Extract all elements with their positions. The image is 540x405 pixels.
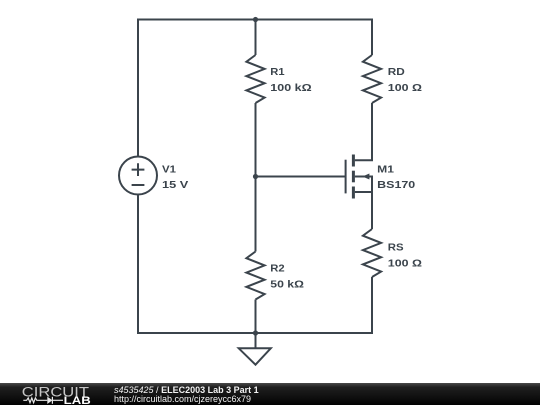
node junction gate [253, 174, 258, 179]
svg-text:V1: V1 [162, 165, 176, 176]
ground symbol [239, 348, 271, 364]
footer bar [0, 383, 540, 405]
wire gate horizontal [256, 176, 346, 178]
label R1 100 kOhm [270, 67, 311, 94]
wire R2 bottom stub [255, 300, 257, 334]
wire RD to drain [355, 103, 372, 160]
node junction top [253, 17, 258, 22]
resistor RD [363, 55, 381, 103]
svg-text:R2: R2 [270, 263, 285, 274]
svg-text:M1: M1 [377, 165, 394, 176]
node junction bottom [253, 330, 258, 335]
svg-text:15 V: 15 V [162, 180, 189, 191]
wire left branch lower + bottom rail + RS bottom stub [138, 195, 372, 334]
wire R1 top stub [255, 20, 257, 56]
resistor R2 [246, 252, 264, 300]
svg-text:100 Ω: 100 Ω [388, 83, 422, 94]
voltage source V1 [119, 157, 157, 195]
wire top rail + left branch upper [138, 20, 372, 157]
transistor M1 [346, 155, 372, 230]
label M1 BS170 [377, 165, 416, 192]
label RS 100 Ohm [388, 242, 422, 269]
svg-text:100 Ω: 100 Ω [388, 258, 422, 269]
svg-text:BS170: BS170 [377, 180, 416, 191]
credit text [114, 385, 259, 404]
svg-text:50 kΩ: 50 kΩ [270, 280, 304, 291]
label V1 15 V [162, 165, 189, 192]
wire gate node to R2 [255, 177, 257, 252]
label RD 100 Ohm [388, 67, 422, 94]
svg-text:RD: RD [388, 67, 405, 78]
svg-text:R1: R1 [270, 67, 285, 78]
wire R1 bottom to gate node [255, 103, 257, 177]
svg-text:LAB: LAB [64, 394, 91, 405]
ground stub [255, 333, 257, 348]
CircuitLab logo [0, 382, 100, 405]
svg-text:100 kΩ: 100 kΩ [270, 83, 311, 94]
label R2 50 kOhm [270, 263, 304, 290]
resistor RS [363, 229, 381, 277]
resistor R1 [246, 55, 264, 103]
svg-text:RS: RS [388, 242, 404, 253]
